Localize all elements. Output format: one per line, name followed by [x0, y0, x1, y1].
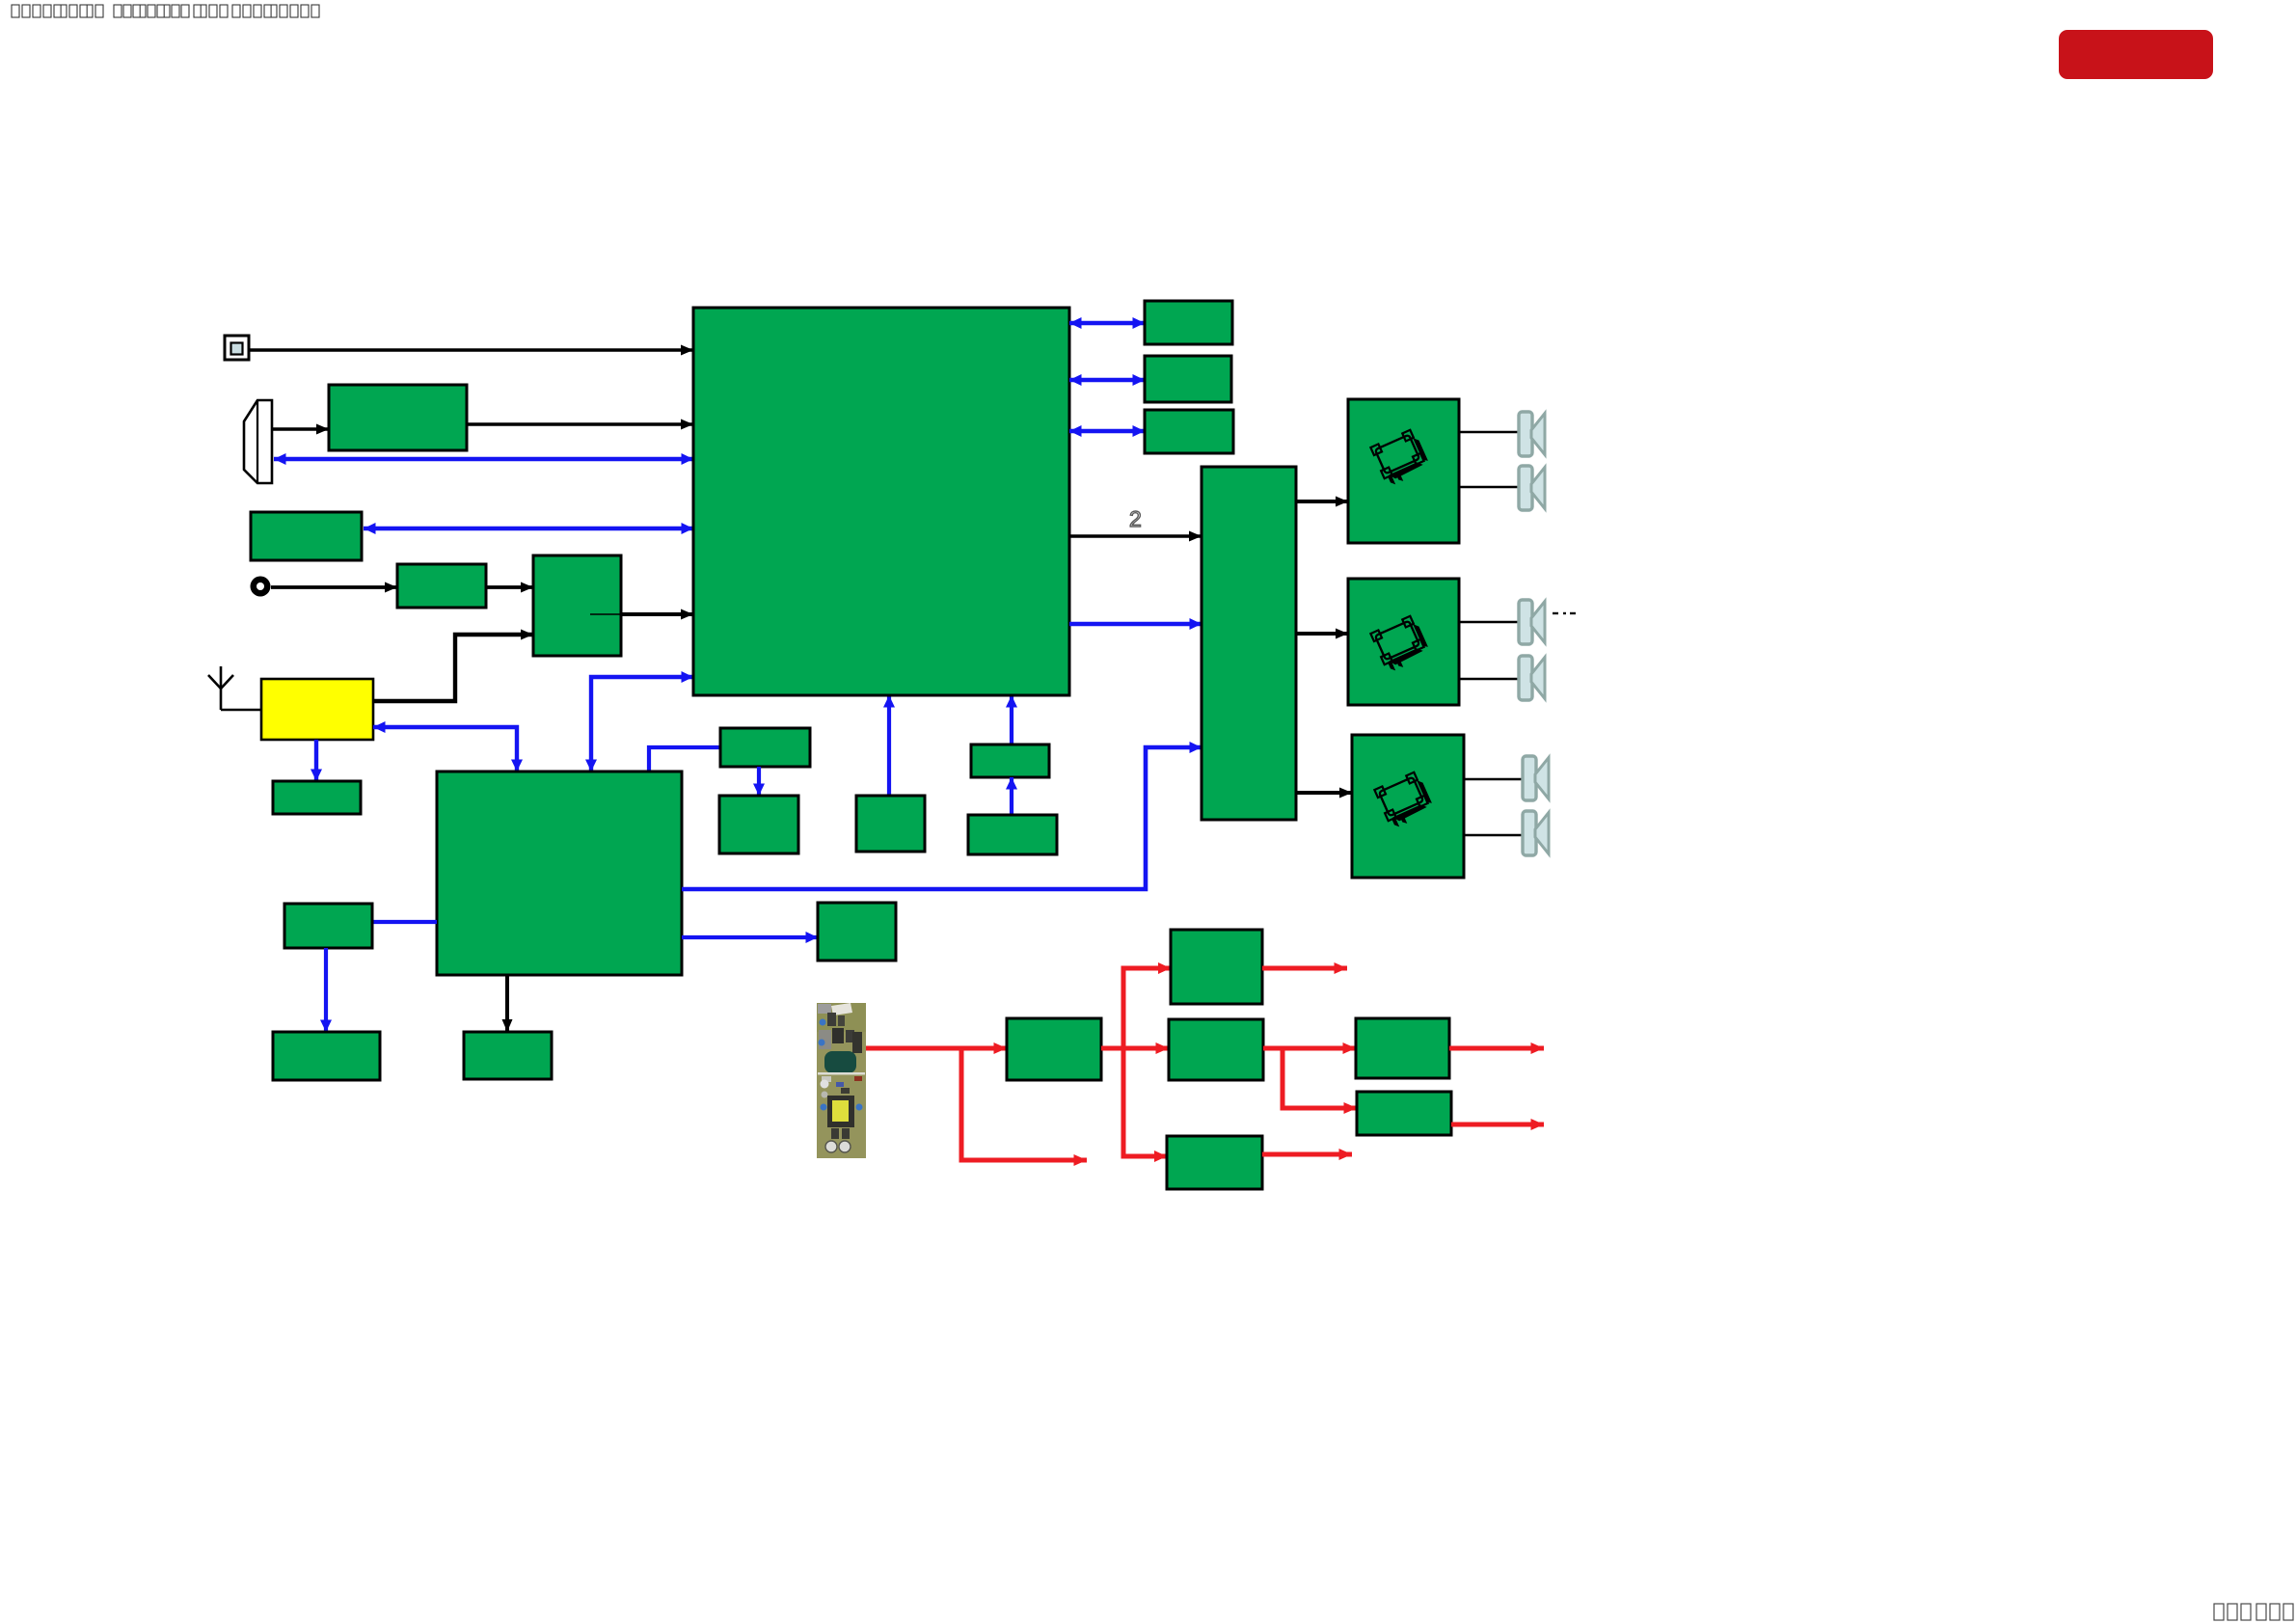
speaker 3b [1523, 811, 1549, 855]
block: bottom DDR [464, 1032, 552, 1079]
power rail: vertical distribution (red) [1123, 968, 1171, 1156]
wire: RCA jack to AV block (black) [271, 585, 397, 589]
block: eeprom [720, 728, 810, 767]
block: audio DAC (tall) [1202, 467, 1296, 820]
power rail: regA output (red) [1449, 1046, 1544, 1051]
footer placeholder glyphs [2214, 1604, 2293, 1620]
bus: xtal block down to flash (blue arrow) [324, 948, 328, 1032]
wire: AV connector icon to main SoC (black) [250, 348, 693, 352]
bus: flash up to SoC (blue arrow) [887, 695, 891, 796]
block: flash [856, 796, 925, 852]
wire: DAC to amp1 (black arrow) [1296, 500, 1348, 503]
bus: SoC to DDR3 B (blue double) [1069, 378, 1145, 382]
bus: eeprom to lower block (blue down arrow) [757, 767, 761, 796]
power rail arrowheads for distribution [1154, 962, 1171, 1162]
bus: SoC to demod (blue elbow, double arrow) [591, 677, 693, 771]
wire: AV block to audio switch (black) [486, 585, 533, 589]
wire: thin blue overlap inside eeprom [720, 746, 758, 748]
antenna symbol [208, 666, 261, 710]
bus: SoC audio I2S to DAC (black, width-2 bus) [1069, 534, 1202, 538]
wire: HDMI block to main SoC (black) [467, 422, 693, 426]
power rail: photo to 12V reg (red) [866, 1046, 1007, 1051]
wire: amp3 to speaker 3a [1464, 778, 1523, 780]
wire: amp2 to speaker 2b [1459, 678, 1519, 680]
block: keypad [818, 903, 896, 961]
wire: amp2 to speaker 2a [1459, 621, 1519, 623]
bus: SoC to flash C (blue double) [1069, 429, 1145, 433]
block: bottom-left memory [273, 1032, 380, 1080]
bus: SoC to DDR3 A (blue double) [1069, 321, 1145, 325]
block: power amp 2 [1348, 579, 1459, 705]
power rail: mid reg to next (red) [1263, 1046, 1356, 1051]
red rounded label box top-right [2059, 30, 2213, 79]
wire: tuner to audio switch (black elbow) [373, 635, 533, 701]
speaker 2b [1519, 656, 1545, 700]
bus: SoC to DAC control (blue arrow) [1069, 622, 1202, 626]
RCA jack symbol [251, 577, 271, 597]
power rail: branch down to output (red elbow) [961, 1048, 1087, 1160]
speaker 1a [1519, 412, 1545, 456]
wire: audio switch to SoC (black) [621, 612, 693, 616]
block: HDMI receiver [329, 385, 467, 450]
block: flash C [1145, 410, 1233, 453]
block: below eeprom [719, 796, 798, 853]
bus: demod to keypad (blue arrow) [682, 935, 818, 939]
block: regulator top [1171, 930, 1262, 1004]
block: regulator mid [1169, 1019, 1263, 1080]
power rail: regB output (red) [1451, 1123, 1544, 1127]
header placeholder-glyph row [12, 5, 319, 17]
wire: VGA connector to HDMI block (black) [272, 427, 329, 431]
power rail: top reg output (red) [1262, 966, 1347, 971]
wire: DAC to amp3 (black arrow) [1296, 791, 1352, 795]
block: regulator B [1357, 1092, 1451, 1135]
block: side AV input [251, 512, 362, 560]
block: ddr upper [971, 744, 1049, 777]
block: demodulator (large) [437, 771, 682, 975]
block: DDR3 A [1145, 301, 1232, 344]
connector icon (composite in) [225, 336, 249, 360]
bus: demod top to eeprom (blue elbow) [649, 747, 720, 771]
power rail: branch to 3.3V reg (red elbow) [1283, 1048, 1357, 1108]
speaker 2a [1519, 600, 1545, 644]
bus: left block to SoC (blue, double arrow) [364, 527, 693, 530]
wire: DAC to amp2 (black arrow) [1296, 632, 1348, 636]
power rail: reg1 to reg row (red) [1101, 1046, 1169, 1051]
block: AV in [397, 564, 486, 608]
power supply board photo [817, 1003, 866, 1158]
bus: tuner to IF block (blue down arrow) [314, 740, 318, 781]
block: tuner (yellow) [261, 679, 373, 740]
block: xtal [284, 904, 372, 948]
wire: demod to bottom DDR (black arrow) [505, 975, 509, 1032]
block: DDR3 B [1145, 356, 1231, 402]
block: power amp 1 [1348, 399, 1459, 543]
block: regulator bottom [1167, 1136, 1262, 1189]
bus: ddr lower to upper (blue arrow) [1010, 777, 1013, 815]
block: IF filter [273, 781, 361, 814]
power rail: bottom reg output (red) [1262, 1152, 1352, 1157]
block: ddr lower [968, 815, 1057, 854]
wire: amp1 to speaker 1a [1459, 431, 1519, 433]
block: regulator A [1356, 1018, 1449, 1078]
wire: amp1 to speaker 1b [1459, 486, 1519, 488]
bus: VGA connector to SoC (blue, double arrow) [274, 457, 693, 461]
svg-text:2: 2 [1129, 506, 1142, 531]
VGA connector symbol [244, 400, 272, 483]
bus: demod to audio DAC (long blue elbow) [682, 747, 1202, 889]
block: power amp 3 [1352, 735, 1464, 878]
block: regulator 1 [1007, 1018, 1101, 1080]
wire: thin line inside audio switch [590, 613, 621, 615]
block: audio switch [533, 555, 621, 656]
wire: amp3 to speaker 3b [1464, 834, 1523, 836]
ellipsis dashes [1553, 612, 1576, 614]
block: main SoC [693, 308, 1069, 695]
bus: demod to tuner / into main board (blue elbow, double arrow) [373, 727, 517, 771]
wire: xtal to demod (blue) [372, 920, 437, 924]
speaker 3a [1523, 756, 1549, 800]
speaker 1b [1519, 466, 1545, 510]
bus: ddr upper to SoC (blue arrow) [1010, 695, 1013, 744]
